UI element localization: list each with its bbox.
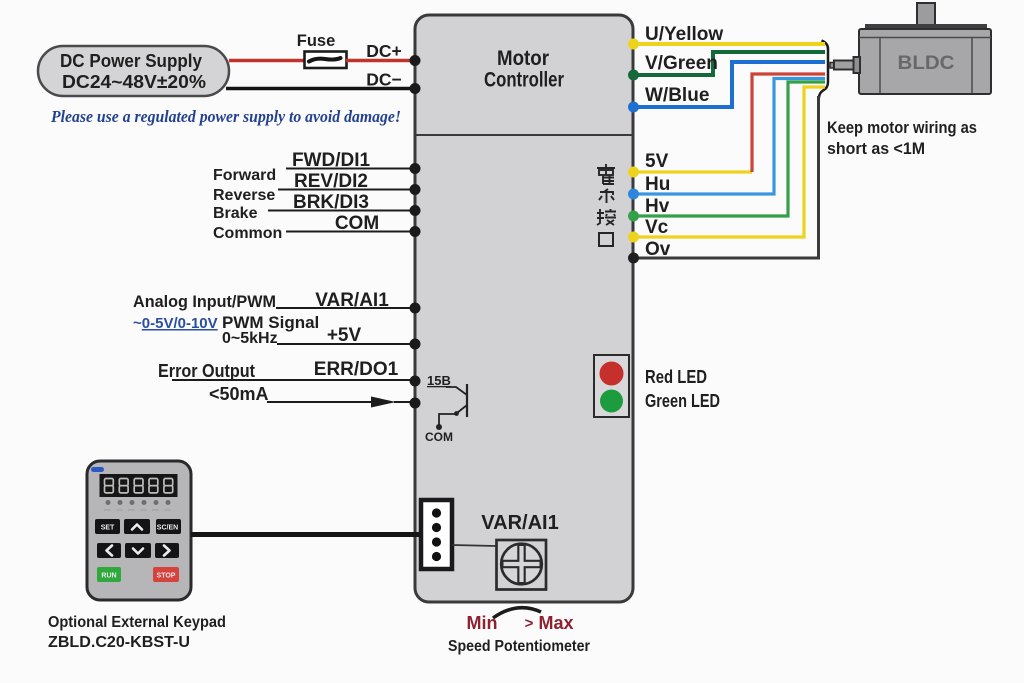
wire DC+ red from fuse to controller [346,41,413,61]
node ERR terminal [410,376,421,387]
svg-text:DC−: DC− [366,70,402,90]
svg-text:Green LED: Green LED [645,391,720,411]
svg-text:Analog Input/PWM: Analog Input/PWM [133,292,276,311]
svg-text:Common: Common [213,225,282,242]
svg-text:Motor: Motor [497,47,549,70]
wire U yellow [634,24,825,45]
node arrow terminal [410,398,421,409]
wire Hu blue [634,79,825,196]
svg-text:Min: Min [467,613,498,633]
wire BRK/DI3 [213,192,413,222]
svg-text:>: > [525,615,534,632]
node 5V terminal [628,167,639,178]
wire 5V yellow-red [634,74,825,172]
wire DC+ red from PS1 to fuse [229,59,304,63]
svg-text:Please use a regulated power s: Please use a regulated power supply to a… [50,107,401,126]
svg-text:Controller: Controller [484,69,564,92]
svg-text:0~5kHz: 0~5kHz [222,330,278,347]
svg-text:Optional External Keypad: Optional External Keypad [48,614,226,631]
svg-text:FWD/DI1: FWD/DI1 [292,150,371,171]
transistor Q1 [425,373,467,444]
label min max [467,613,574,633]
fuse F1 [297,32,347,68]
wire ERR/DO1 error output [158,359,413,381]
label VAR/AI1 bottom [481,512,558,534]
keypad KP1 [87,461,191,600]
label green LED [645,391,720,411]
svg-text:ZBLD.C20-KBST-U: ZBLD.C20-KBST-U [48,634,190,651]
node FWD terminal [410,163,421,174]
LED indicator box [594,355,629,417]
svg-text:short as <1M: short as <1M [827,139,925,158]
potentiometer rotation arc [493,608,541,618]
motor shaft [830,57,860,73]
svg-text:DC24~48V±20%: DC24~48V±20% [62,72,206,92]
motor M1 BLDC [859,3,991,94]
wire Hv green [634,82,825,217]
wire +5V [277,325,413,346]
controller divider line [415,134,633,136]
controller label [484,47,564,92]
wire DC- black [226,70,413,90]
controller U1 body [415,15,633,602]
node Vc terminal [628,232,639,243]
LED red D1 [600,362,624,386]
svg-text:REV/DI2: REV/DI2 [294,171,368,192]
keypad cable [191,532,421,537]
power supply PS1 [38,46,229,96]
wire connector to potentiometer [452,545,497,546]
wire Vc yellow [634,87,825,238]
svg-text:Max: Max [538,613,573,633]
wire W blue [634,62,825,107]
wire COM [213,213,413,242]
svg-text:VAR/AI1: VAR/AI1 [315,290,389,311]
svg-text:Reverse: Reverse [213,187,275,204]
svg-text:Speed Potentiometer: Speed Potentiometer [448,638,590,655]
LED green D2 [600,390,623,413]
svg-text:U/Yellow: U/Yellow [645,24,723,45]
wire Ov black [634,96,819,260]
node +5V terminal [410,339,421,350]
svg-text:DC+: DC+ [366,41,402,61]
wire VAR/AI1 analog input [133,290,413,311]
node W terminal [628,102,639,113]
svg-text:V/Green: V/Green [645,53,718,74]
svg-text:DC Power Supply: DC Power Supply [60,51,202,71]
node BRK terminal [410,205,421,216]
svg-text:Hv: Hv [645,196,670,217]
svg-text:ERR/DO1: ERR/DO1 [314,359,399,380]
wire FWD/DI1 [213,150,413,184]
connector J1 [421,500,452,569]
svg-text:~0-5V/0-10V: ~0-5V/0-10V [133,315,218,332]
label keypad [48,614,226,651]
svg-text:Fuse: Fuse [297,32,336,50]
node Hu terminal [628,189,639,200]
wire bundle sheath outline at motor [819,41,828,99]
svg-text:COM: COM [425,430,453,444]
svg-text:Ov: Ov [645,239,671,260]
svg-text:Hu: Hu [645,174,670,195]
node DC- terminal [410,83,421,94]
note keep wiring short [827,118,977,158]
svg-text:Error Output: Error Output [158,361,255,381]
label red LED [645,367,707,387]
node DC+ terminal [410,55,421,66]
svg-text:BLDC: BLDC [898,53,955,74]
svg-text:STOP: STOP [157,573,176,580]
svg-text:VAR/AI1: VAR/AI1 [481,512,558,534]
potentiometer RP1 [497,540,547,590]
svg-text:5V: 5V [645,151,669,172]
svg-text:Brake: Brake [213,205,258,222]
node VAR terminal [410,303,421,314]
node U terminal [628,39,639,50]
svg-text:Vc: Vc [645,217,669,238]
wire <50mA with arrow [209,384,413,408]
label PWM signal range [133,313,319,347]
warning note [50,107,401,126]
svg-text:15B: 15B [427,373,451,388]
node V terminal [628,70,639,81]
node Hv terminal [628,211,639,222]
svg-text:BRK/DI3: BRK/DI3 [293,192,369,213]
svg-text:RUN: RUN [101,573,116,580]
node REV terminal [410,184,421,195]
svg-text:Forward: Forward [213,167,276,184]
svg-text:<50mA: <50mA [209,384,269,404]
svg-text:SET: SET [101,525,115,532]
wire V green [634,52,825,75]
svg-text:W/Blue: W/Blue [645,85,709,106]
hall interface chinese label [597,164,616,246]
svg-text:+5V: +5V [327,325,362,346]
label speed potentiometer [448,638,590,655]
svg-text:Red LED: Red LED [645,367,707,387]
svg-text:SC/EN: SC/EN [157,525,178,532]
svg-text:COM: COM [335,213,379,234]
wire REV/DI2 [213,171,413,204]
node COM terminal [410,226,421,237]
svg-text:Keep motor wiring as: Keep motor wiring as [827,118,977,137]
node Ov terminal [628,253,639,264]
